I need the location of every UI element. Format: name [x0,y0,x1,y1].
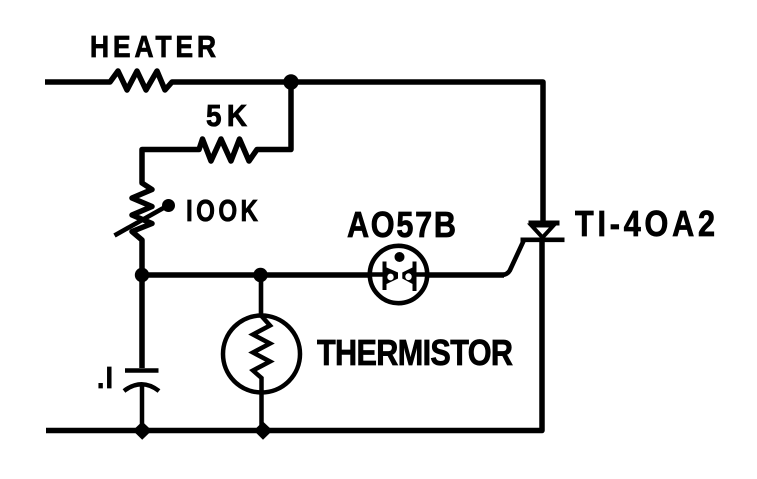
svg-text:.I: .I [97,361,113,395]
svg-text:AO57B: AO57B [347,206,456,246]
svg-text:TI-4OA2: TI-4OA2 [575,205,715,245]
svg-text:5K: 5K [206,99,248,134]
svg-text:HEATER: HEATER [90,30,216,64]
svg-text:THERMISTOR: THERMISTOR [317,334,513,374]
svg-text:IOOK: IOOK [186,193,258,228]
